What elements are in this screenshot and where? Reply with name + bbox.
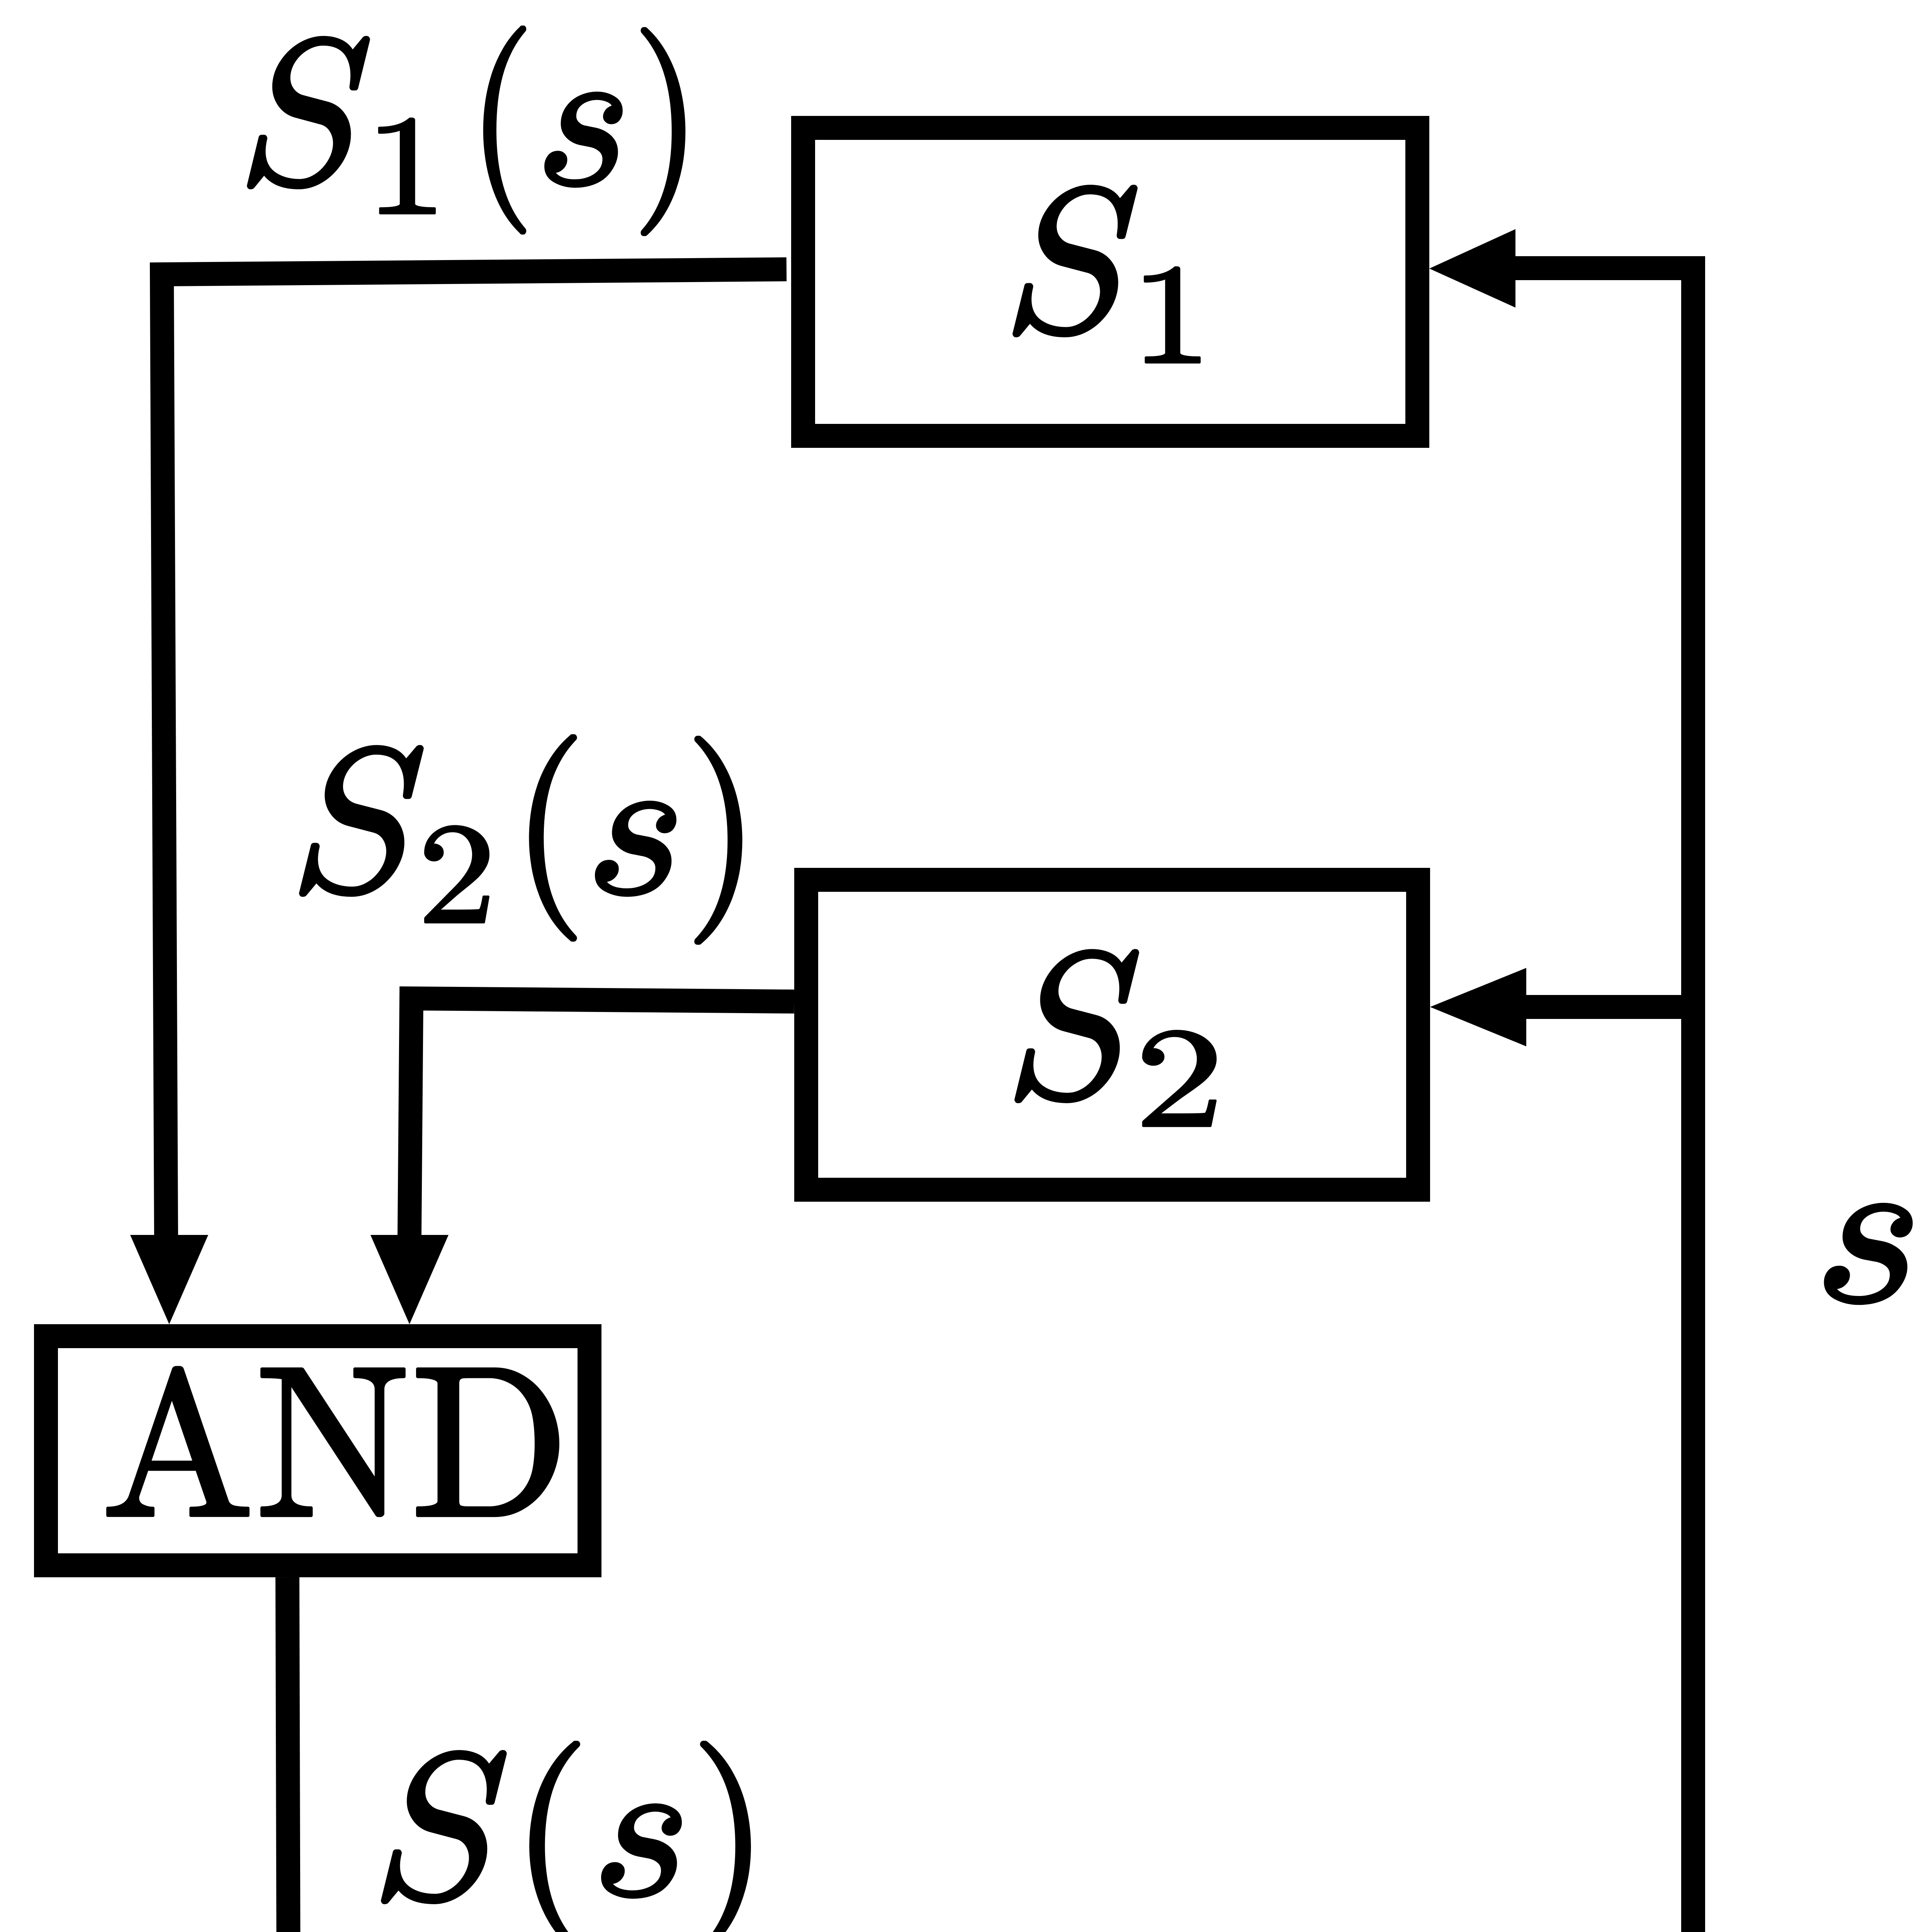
label AND in block (letter N) (262, 1369, 404, 1515)
label S2 in block (letter S) (1016, 951, 1138, 1102)
label S1 in block (letter S) (1014, 186, 1136, 336)
label S1(s) (letter S) (248, 37, 369, 188)
label AND in block (letter A) (108, 1367, 248, 1515)
block S2 (806, 880, 1418, 1190)
arrowhead into AND from S1 (130, 1235, 208, 1324)
label S1(s) (subscript 1) (379, 119, 435, 213)
label S1(s) (close paren) (642, 29, 684, 235)
label S(s) (close paren) (702, 1742, 749, 1932)
wire feedback branch to S2 (1526, 995, 1693, 1019)
block S1 (803, 128, 1417, 436)
block AND (46, 1336, 589, 1565)
label S2(s) (subscript 2) (425, 826, 488, 922)
label S2(s) (letter s) (596, 802, 675, 895)
arrowhead into S1 (1429, 229, 1515, 308)
arrowhead into S2 (1430, 968, 1526, 1046)
node label s (feedback signal) (1826, 1204, 1911, 1303)
wire AND output (down then right to G) (287, 1577, 710, 1932)
label S(s) (letter s) (603, 1805, 680, 1897)
label S(s) (letter S) (382, 1752, 505, 1903)
label AND in block (letter D) (418, 1369, 558, 1515)
label S2(s) (open paren) (530, 736, 576, 940)
label S(s) (open paren) (531, 1742, 579, 1932)
label S1 in block (subscript 1) (1145, 267, 1199, 362)
label S1(s) (letter s) (546, 93, 621, 186)
label S1(s) (open paren) (484, 27, 525, 233)
label S2 in block (subscript 2) (1143, 1031, 1215, 1126)
label S2(s) (close paren) (696, 737, 741, 943)
arrowhead into AND from S2 (370, 1235, 448, 1324)
wire G output feedback (right, up, left into S1) (1439, 268, 1693, 1932)
wire S1 output (left then down to AND) (162, 269, 787, 1236)
label S2(s) (letter S) (301, 747, 422, 895)
wire S2 output (left then down to AND) (409, 998, 794, 1236)
